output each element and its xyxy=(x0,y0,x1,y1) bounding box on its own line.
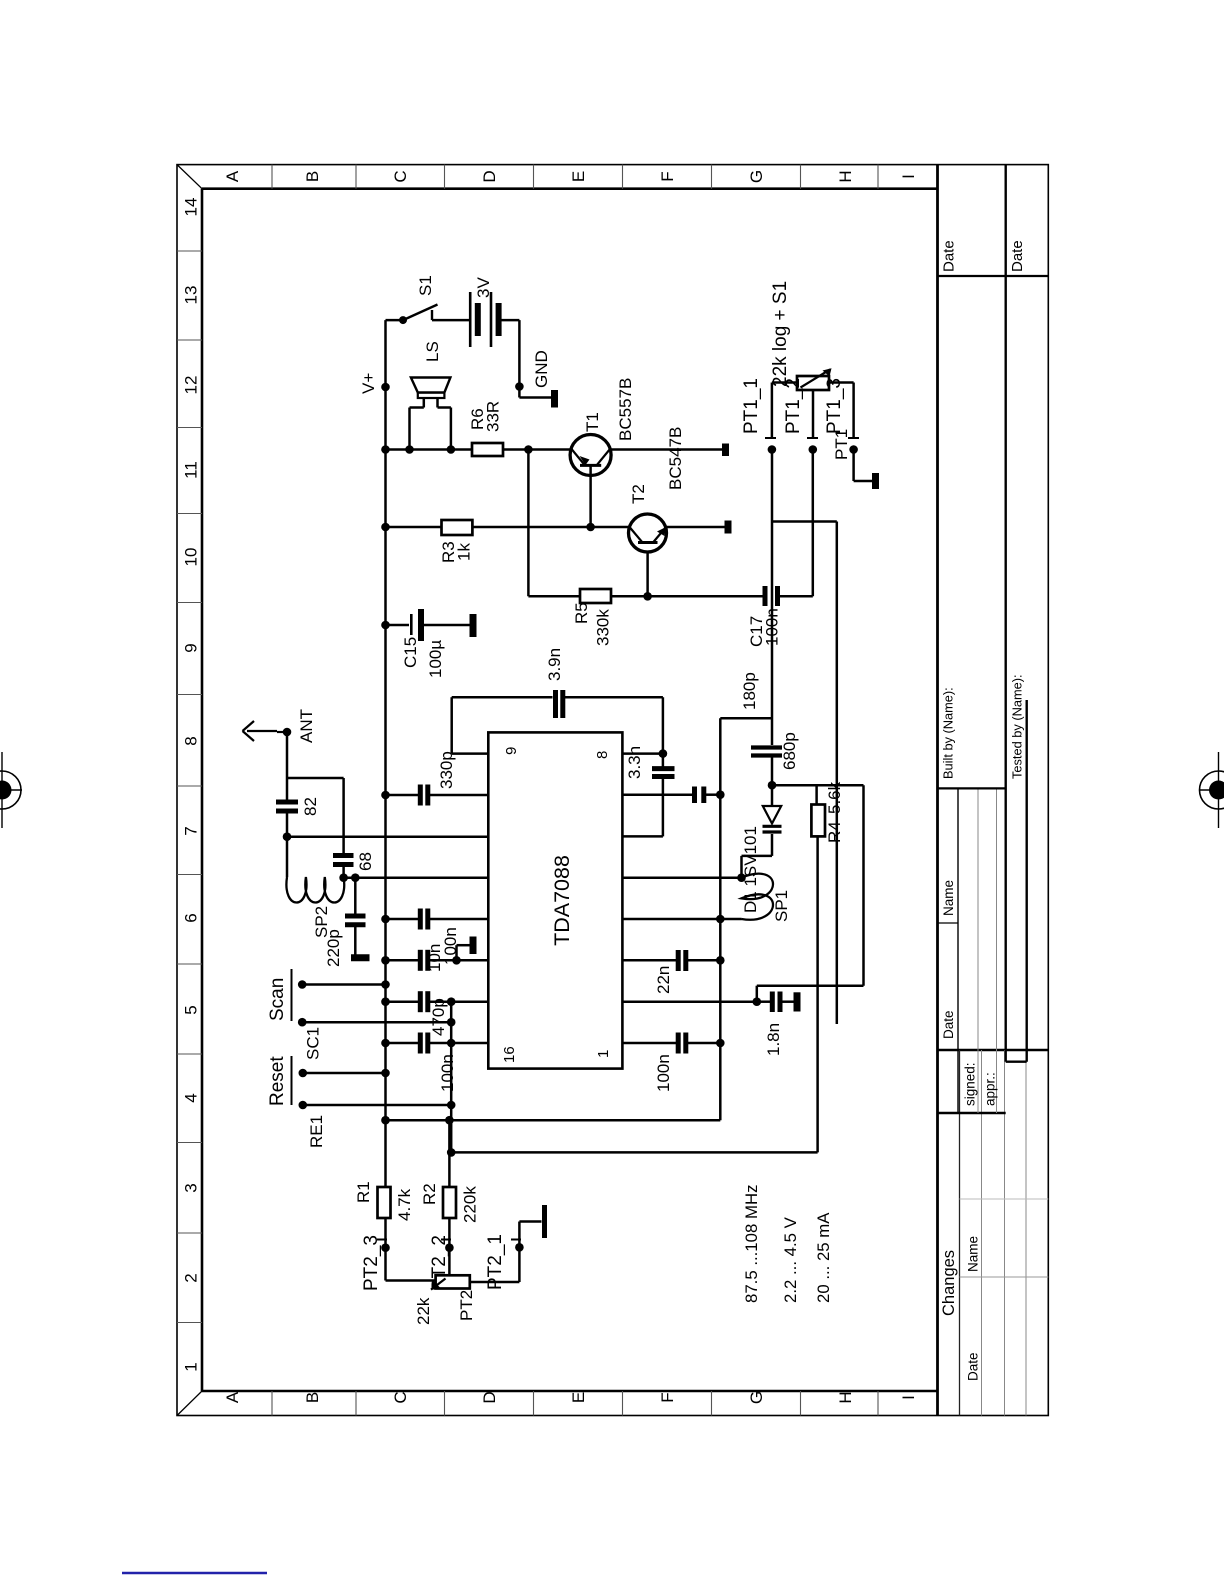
wire pin11 drop xyxy=(287,835,488,838)
wire tank stub to pt1_1 xyxy=(720,717,772,720)
label PT2_3 xyxy=(361,1235,382,1291)
label C15 xyxy=(401,637,445,678)
label PT1_2 xyxy=(783,378,804,434)
wire pin13 net xyxy=(386,909,489,930)
antenna ANT xyxy=(243,721,288,741)
svg-text:SC1: SC1 xyxy=(304,1027,323,1060)
pin tick PT1_1 xyxy=(765,437,776,439)
svg-text:82: 82 xyxy=(301,797,320,816)
wire pt1_3 gnd xyxy=(854,450,872,482)
node 680p d1 xyxy=(768,781,777,790)
svg-text:Tested by (Name):: Tested by (Name): xyxy=(1010,674,1025,779)
svg-text:22n: 22n xyxy=(654,966,673,994)
registration mark top xyxy=(0,752,22,828)
node PT1_2 xyxy=(809,445,818,454)
wire R5 tap run xyxy=(528,450,580,597)
svg-text:3.3n: 3.3n xyxy=(625,746,644,779)
resistor R2 xyxy=(443,1187,456,1218)
svg-text:9: 9 xyxy=(182,643,201,652)
frame row letters left xyxy=(223,1391,918,1404)
wire C15 stub xyxy=(386,624,410,627)
ground PT2_1 xyxy=(542,1205,547,1238)
svg-text:3: 3 xyxy=(182,1183,201,1192)
svg-text:11: 11 xyxy=(182,461,201,479)
svg-text:5.6k: 5.6k xyxy=(825,781,844,814)
note voltage range xyxy=(781,1216,800,1303)
resistor R4 xyxy=(811,805,825,837)
title block signature rows xyxy=(938,788,1006,1113)
transistor T2 BC547B xyxy=(629,514,667,552)
label 180p xyxy=(740,672,759,710)
wire pin10 net xyxy=(386,785,489,806)
svg-text:20 ... 25 mA: 20 ... 25 mA xyxy=(814,1212,833,1303)
node rail reset xyxy=(381,1069,390,1078)
svg-text:H: H xyxy=(836,170,855,182)
node T1 base junction xyxy=(586,523,595,532)
svg-text:E: E xyxy=(569,1392,588,1403)
wire 680p bottom run xyxy=(757,785,864,1002)
label ANT xyxy=(297,709,316,743)
node PT1_3 xyxy=(849,445,858,454)
switch S1 xyxy=(399,305,470,325)
label 3.9n xyxy=(545,648,564,681)
frame top reference band separators xyxy=(177,251,202,1323)
ic U1 TDA7088 body xyxy=(488,732,622,1068)
blue margin line xyxy=(122,1572,267,1575)
svg-text:1: 1 xyxy=(595,1050,612,1058)
speaker LS xyxy=(410,378,451,450)
wire d1 to sp1 xyxy=(742,856,773,878)
wire 3.3n run xyxy=(622,697,663,836)
svg-text:T2: T2 xyxy=(629,484,648,504)
drawing frame outer border xyxy=(177,165,1048,1416)
title block changes labels xyxy=(940,1236,981,1381)
capacitor 100n pin13 label xyxy=(441,927,460,965)
svg-text:TDA7088: TDA7088 xyxy=(550,855,574,946)
wire pin2 net xyxy=(622,1000,756,1003)
label SP1 xyxy=(772,890,791,922)
svg-text:R4: R4 xyxy=(825,821,844,843)
svg-text:1k: 1k xyxy=(455,543,474,561)
capacitor 330p label xyxy=(437,751,456,789)
svg-text:330p: 330p xyxy=(437,751,456,789)
svg-text:8: 8 xyxy=(594,751,611,759)
node LS minus xyxy=(405,445,414,454)
node pin16 tap xyxy=(447,1039,456,1048)
svg-text:100µ: 100µ xyxy=(426,640,445,678)
svg-text:Reset: Reset xyxy=(267,1056,288,1106)
wire LS-R6 drop xyxy=(386,448,473,451)
wire r4 right xyxy=(815,785,818,804)
wire R6 to T1 xyxy=(503,448,571,451)
capacitor 470p label xyxy=(429,998,448,1036)
note current range xyxy=(814,1212,833,1303)
label SP2 xyxy=(312,906,331,938)
svg-text:13: 13 xyxy=(182,286,201,305)
capacitor 100n pin1 label xyxy=(654,1054,673,1092)
svg-text:Date: Date xyxy=(966,1352,981,1381)
node pin8 xyxy=(659,749,668,758)
button Reset xyxy=(292,1056,452,1109)
node rail pin10 xyxy=(381,791,390,800)
node rail pin13 xyxy=(381,915,390,924)
svg-text:4.7k: 4.7k xyxy=(395,1188,414,1221)
wire scan-sc1 bus xyxy=(450,1002,453,1153)
capacitor 180p xyxy=(695,787,704,804)
svg-text:R1: R1 xyxy=(354,1181,373,1203)
svg-text:100n: 100n xyxy=(654,1054,673,1092)
node tank pin3 xyxy=(716,956,725,965)
svg-text:1: 1 xyxy=(182,1362,201,1371)
ground C15 xyxy=(470,614,477,637)
wire pt1_1 stub xyxy=(772,383,797,439)
pin tick PT1_2 xyxy=(807,437,818,439)
node bus scan xyxy=(447,1018,456,1027)
svg-text:10: 10 xyxy=(182,548,201,567)
inductor SP2 xyxy=(286,877,344,903)
node pin14 gnd tap xyxy=(452,956,461,965)
wire T1 collector xyxy=(610,448,722,451)
capacitor 68 xyxy=(333,856,354,865)
label LS xyxy=(423,341,442,362)
wire tank line xyxy=(719,718,722,1120)
node bus-pin16 xyxy=(450,1042,452,1044)
wire pt2 bottom xyxy=(470,1247,520,1282)
svg-text:9: 9 xyxy=(503,747,520,755)
pin tick PT2_3 xyxy=(377,1239,387,1241)
svg-text:D: D xyxy=(480,1391,499,1403)
button Scan xyxy=(292,969,452,1027)
svg-text:G: G xyxy=(747,170,766,183)
registration mark bottom xyxy=(1199,752,1224,828)
pin tick PT2_2 xyxy=(441,1239,451,1241)
svg-text:Name: Name xyxy=(941,880,956,916)
label R5 xyxy=(572,602,613,646)
frame corner diagonal top-left xyxy=(177,1391,202,1416)
frame right reference band separators xyxy=(272,165,878,189)
label R2 xyxy=(420,1183,480,1223)
label 22k xyxy=(414,1297,433,1325)
frame left reference band separators xyxy=(272,1391,878,1416)
svg-text:220p: 220p xyxy=(324,929,343,967)
node rail-R3 xyxy=(381,523,390,532)
node rail pin15 xyxy=(381,997,390,1006)
svg-text:Scan: Scan xyxy=(267,978,288,1021)
label R1 xyxy=(354,1181,414,1221)
capacitor 22n label xyxy=(654,966,673,994)
title block built-by cell xyxy=(941,687,956,779)
resistor R3 xyxy=(442,520,473,535)
svg-text:2: 2 xyxy=(182,1273,201,1282)
svg-text:A: A xyxy=(223,170,242,182)
capacitor 1.8n xyxy=(757,992,794,1013)
svg-text:22k log + S1: 22k log + S1 xyxy=(770,281,791,387)
node R5 tap xyxy=(524,445,533,454)
node PT2_2 xyxy=(445,1243,454,1252)
wire 680p run xyxy=(771,758,774,786)
pin number 9 xyxy=(503,747,520,755)
node rail vext xyxy=(381,1116,390,1125)
svg-text:GND: GND xyxy=(532,350,551,388)
svg-text:Name: Name xyxy=(966,1236,981,1272)
svg-text:3.9n: 3.9n xyxy=(545,648,564,681)
ground T2 emitter xyxy=(725,521,732,534)
wire battery to ground xyxy=(518,320,521,386)
svg-text:S1: S1 xyxy=(416,275,435,296)
svg-text:8: 8 xyxy=(182,736,201,745)
svg-text:7: 7 xyxy=(182,826,201,835)
wire pt1_1 branch xyxy=(772,522,837,1025)
wire pin12 drop xyxy=(344,876,489,879)
wire 68 branch xyxy=(287,778,344,877)
label PT1_3 xyxy=(824,378,845,434)
wire r4 left xyxy=(451,836,817,1152)
label V+ xyxy=(359,373,378,394)
node rail-R6 xyxy=(381,445,390,454)
label T2 value xyxy=(666,427,685,490)
pin tick PT1_3 xyxy=(848,437,859,439)
svg-text:68: 68 xyxy=(356,852,375,871)
wire v+ extension xyxy=(386,1119,721,1122)
svg-text:12: 12 xyxy=(182,376,201,395)
svg-text:E: E xyxy=(569,171,588,182)
node pin2 1.8n xyxy=(753,997,762,1006)
ground battery xyxy=(519,387,554,408)
label RE1 xyxy=(307,1115,326,1148)
label PT1 value xyxy=(770,281,791,387)
label 3V xyxy=(474,277,493,298)
frame corner diagonal top-right xyxy=(177,165,202,189)
svg-text:SP1: SP1 xyxy=(772,890,791,922)
svg-text:1.8n: 1.8n xyxy=(764,1023,783,1056)
node rail pin14 xyxy=(381,956,390,965)
node tank pin4 xyxy=(716,915,725,924)
capacitor C15 xyxy=(411,609,469,641)
capacitor 680p xyxy=(751,748,782,756)
svg-text:R5: R5 xyxy=(572,602,591,624)
capacitor 10n label xyxy=(425,944,444,972)
wire pin14 net xyxy=(386,950,489,971)
label T1 value xyxy=(616,378,635,441)
svg-text:C: C xyxy=(391,1391,410,1403)
diode D1 1SV101 xyxy=(763,785,782,856)
svg-text:220k: 220k xyxy=(461,1186,480,1223)
resistor R5 xyxy=(580,589,611,603)
svg-text:D1 1SV101: D1 1SV101 xyxy=(741,826,760,913)
label PT2_1 xyxy=(485,1234,506,1290)
label PT1 xyxy=(832,429,851,460)
wire pin4 to coil xyxy=(720,918,741,921)
node rail pin16 xyxy=(381,1039,390,1048)
svg-text:C15: C15 xyxy=(401,637,420,668)
node T2 base junction xyxy=(643,592,652,601)
svg-text:Date: Date xyxy=(1009,240,1026,272)
svg-text:16: 16 xyxy=(501,1046,518,1063)
label Scan xyxy=(267,978,288,1021)
node battery gnd xyxy=(515,382,524,391)
inductor SP1 xyxy=(742,874,774,920)
pin tick PT2_1 xyxy=(511,1239,521,1241)
svg-text:6: 6 xyxy=(182,913,201,922)
svg-text:Changes: Changes xyxy=(940,1250,958,1316)
resistor R6 xyxy=(472,443,503,456)
title block changes section box xyxy=(938,165,1049,1416)
note frequency range xyxy=(742,1185,761,1303)
node vext r2 xyxy=(445,1116,454,1125)
node pin15 tap xyxy=(447,997,456,1006)
svg-text:330k: 330k xyxy=(594,609,613,646)
svg-text:14: 14 xyxy=(182,198,201,217)
pin number 16 xyxy=(501,1046,518,1063)
node rail-C15 xyxy=(381,621,390,630)
svg-text:87.5 ...108 MHz: 87.5 ...108 MHz xyxy=(742,1185,761,1303)
wire pin1 net xyxy=(622,1033,720,1054)
node ANT xyxy=(283,728,292,737)
wire T2 emitter xyxy=(666,526,725,529)
capacitor C17 xyxy=(765,586,813,606)
ground 220p xyxy=(351,954,370,961)
label 680p xyxy=(780,732,799,770)
svg-text:R2: R2 xyxy=(420,1183,439,1205)
svg-text:appr.:: appr.: xyxy=(983,1072,998,1106)
label 82 xyxy=(301,797,320,816)
ground pin14 xyxy=(457,937,474,961)
label S1 xyxy=(416,275,435,296)
svg-text:470p: 470p xyxy=(429,998,448,1036)
title block row labels xyxy=(941,880,998,1106)
svg-text:I: I xyxy=(899,1395,918,1400)
capacitor 3.9n xyxy=(556,690,563,718)
wire pt2_1 gnd xyxy=(519,1222,541,1248)
svg-text:V+: V+ xyxy=(359,373,378,394)
svg-text:180p: 180p xyxy=(740,672,759,710)
wire pt1_2 stub xyxy=(812,390,815,438)
label T1 xyxy=(583,412,602,432)
battery 3V xyxy=(470,292,519,347)
node V+ junction xyxy=(381,383,390,392)
label 3.3n xyxy=(625,746,644,779)
wire V+ rail xyxy=(384,320,387,1280)
ground 1.8n xyxy=(794,992,801,1011)
title block tested-by row xyxy=(1006,165,1027,1062)
svg-text:PT2_3: PT2_3 xyxy=(361,1235,382,1291)
svg-text:G: G xyxy=(747,1391,766,1404)
svg-text:3V: 3V xyxy=(474,277,493,298)
svg-text:Built by (Name):: Built by (Name): xyxy=(941,687,956,779)
label T2 xyxy=(629,484,648,504)
svg-text:Date: Date xyxy=(941,240,958,272)
wire T1 base xyxy=(589,465,592,527)
capacitor 82 xyxy=(276,802,298,811)
label R3 xyxy=(439,541,474,563)
svg-text:Date: Date xyxy=(941,1010,956,1039)
node PT1_1 xyxy=(768,445,777,454)
label Reset xyxy=(267,1056,288,1106)
frame row letters right xyxy=(223,170,918,183)
svg-text:5: 5 xyxy=(182,1005,201,1014)
capacitor 220p xyxy=(345,916,366,925)
wire pin3 net xyxy=(622,950,720,971)
label D1 xyxy=(741,826,760,913)
drawing frame inner border xyxy=(202,165,938,1416)
node rail scan xyxy=(381,980,390,989)
wire pin7 180p xyxy=(622,793,692,796)
potentiometer PT2 xyxy=(431,1275,470,1289)
ground T1 collector xyxy=(722,444,729,457)
svg-text:signed:: signed: xyxy=(963,1062,978,1106)
node tank pin1 xyxy=(716,1039,725,1048)
wire pt1_3 stub xyxy=(829,383,854,439)
svg-text:BC547B: BC547B xyxy=(666,427,685,490)
wire R5 to C17 xyxy=(611,595,763,598)
node ant-pin11 xyxy=(283,832,292,841)
svg-text:A: A xyxy=(223,1391,242,1403)
svg-text:B: B xyxy=(303,1392,322,1403)
svg-text:ANT: ANT xyxy=(297,709,316,743)
svg-text:2.2 ... 4.5 V: 2.2 ... 4.5 V xyxy=(781,1216,800,1303)
wire PT1_1 run xyxy=(771,450,774,746)
node PT2_3 xyxy=(381,1243,390,1252)
resistor R1 xyxy=(378,1187,391,1218)
svg-text:22k: 22k xyxy=(414,1297,433,1325)
svg-text:33R: 33R xyxy=(484,401,503,432)
wire pin9 loop xyxy=(452,697,663,753)
svg-text:B: B xyxy=(303,171,322,182)
wire R3 line xyxy=(386,526,630,529)
pin number 1 xyxy=(595,1050,612,1058)
wire pt2_3 to pot xyxy=(386,1279,436,1282)
wire pin5 stub xyxy=(622,876,741,879)
label PT1_1 xyxy=(741,378,762,434)
node sp2 top xyxy=(339,873,348,882)
svg-text:F: F xyxy=(658,171,677,181)
wire pin16 net xyxy=(386,1033,489,1054)
svg-text:PT1_3: PT1_3 xyxy=(824,378,845,434)
label 1.8n xyxy=(764,1023,783,1056)
wire pin8 stub xyxy=(622,752,663,755)
svg-text:LS: LS xyxy=(423,341,442,362)
node bus re1 xyxy=(447,1101,456,1110)
node tank-pin7 xyxy=(716,790,725,799)
transistor T1 BC557B xyxy=(570,435,611,476)
node LS plus xyxy=(447,445,456,454)
pin number 8 xyxy=(594,751,611,759)
label C17 xyxy=(747,608,782,647)
wire pin4 stub xyxy=(622,918,720,921)
label 68 xyxy=(356,852,375,871)
label SC1 xyxy=(304,1027,323,1060)
wire pin15 net xyxy=(386,991,489,1012)
svg-text:BC557B: BC557B xyxy=(616,378,635,441)
svg-text:100n: 100n xyxy=(441,927,460,965)
label PT2 xyxy=(457,1290,476,1321)
svg-text:PT1_1: PT1_1 xyxy=(741,378,762,434)
svg-text:PT2: PT2 xyxy=(457,1290,476,1321)
ground PT1_3 xyxy=(872,473,879,489)
wire r2 line xyxy=(448,1120,451,1275)
node bus r4 corner xyxy=(447,1148,456,1157)
svg-text:4: 4 xyxy=(182,1093,201,1102)
node PT2_1 xyxy=(515,1243,524,1252)
label R4 xyxy=(825,781,844,843)
node 220p tap xyxy=(351,873,360,882)
svg-text:C: C xyxy=(391,170,410,182)
potentiometer PT1 xyxy=(797,368,832,390)
svg-text:100n: 100n xyxy=(438,1054,457,1092)
wire pin7 to tank xyxy=(706,793,720,796)
wire ant net top xyxy=(286,732,289,877)
svg-text:H: H xyxy=(836,1391,855,1403)
